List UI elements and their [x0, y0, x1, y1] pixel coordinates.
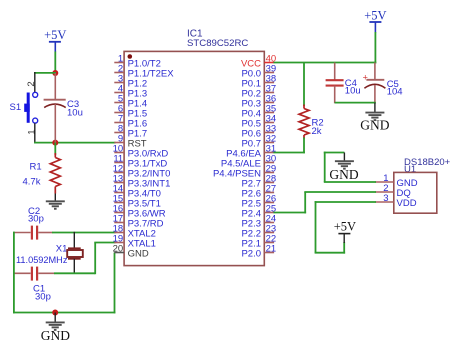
svg-text:GND: GND — [329, 167, 358, 182]
IC1 pin 3 (P1.2) — [114, 73, 147, 89]
IC1 pin 27 (P2.6) — [241, 183, 276, 199]
IC1 pin 17 (P3.7/RD) — [113, 213, 164, 229]
IC1 pin 31 (P4.6/EA) — [226, 143, 276, 159]
IC1 pin 8 (P1.7) — [114, 123, 147, 139]
wire GND pin 20 drop — [114, 253, 116, 314]
IC1 pin 4 (P1.3) — [114, 83, 147, 99]
IC1 pin 21 (P2.0) — [241, 243, 276, 259]
wire +5V drop to VCC rail — [374, 32, 376, 63]
svg-text:4.7k: 4.7k — [23, 177, 41, 188]
capacitor C4 — [326, 63, 344, 104]
IC1 pin 33 (P0.6) — [241, 123, 276, 139]
IC1 pin 23 (P2.2) — [241, 223, 276, 239]
IC1 pin 25 (P2.4) — [241, 203, 276, 219]
IC1 pin 2 (P1.1/T2EX) — [114, 63, 174, 79]
capacitor C1 — [14, 267, 55, 281]
IC1 pin 40 (VCC) — [241, 53, 276, 69]
svg-text:10u: 10u — [67, 108, 83, 119]
IC1 pin 38 (P0.1) — [241, 73, 276, 89]
IC1 pin 19 (XTAL1) — [113, 233, 156, 249]
wire riser to XTAL1 pin 19 — [94, 243, 115, 275]
IC1 pin 1 (P1.0/T2) — [114, 53, 161, 69]
IC1 pin 35 (P0.4) — [241, 103, 276, 119]
svg-text:30p: 30p — [28, 214, 44, 225]
IC1 pin 15 (P3.5/T1) — [113, 193, 161, 209]
IC1 pin 9 (RST) — [114, 133, 146, 149]
svg-text:30p: 30p — [35, 291, 51, 302]
IC1 pin 6 (P1.5) — [114, 103, 147, 119]
ground GND (near U1) — [329, 153, 358, 183]
switch S1 — [24, 92, 38, 123]
IC1 pin 34 (P0.5) — [241, 113, 276, 129]
IC1 pin 16 (P3.6/WR) — [113, 203, 166, 219]
IC1 pin 5 (P1.4) — [114, 93, 147, 109]
U1 pin 2 (DQ) — [375, 183, 410, 199]
IC1 pin 28 (P2.7) — [241, 173, 276, 189]
svg-text:+5V: +5V — [334, 219, 356, 233]
crystal X1 — [67, 232, 83, 274]
svg-text:1: 1 — [26, 130, 37, 135]
svg-text:R1: R1 — [30, 162, 42, 173]
node A junction dot — [52, 70, 58, 76]
svg-text:21: 21 — [266, 243, 277, 254]
IC1 pin 30 (P4.5/ALE) — [221, 153, 276, 169]
U1 pin 1 (GND) — [375, 173, 417, 189]
IC1 pin 36 (P0.3) — [241, 93, 276, 109]
svg-text:2k: 2k — [312, 126, 322, 137]
wire C2 to XTAL2 pin 18 — [52, 232, 116, 234]
IC1 pin 13 (P3.3/INT1) — [113, 173, 171, 189]
IC1 pin 7 (P1.6) — [114, 113, 147, 129]
IC1 pin 11 (P3.1/TxD) — [113, 153, 167, 169]
IC1 pin 22 (P2.1) — [241, 233, 276, 249]
wire S1 pin1 drop — [34, 123, 36, 143]
IC1 pin 29 (P4.4/PSEN) — [213, 163, 276, 179]
svg-text:GND: GND — [128, 248, 149, 259]
IC1 pin 32 (P0.7) — [241, 133, 276, 149]
wire VCC rail pin 40 — [274, 62, 377, 64]
wire node A to S1 pin 2 — [34, 72, 56, 74]
capacitor C5 — [363, 63, 386, 104]
wire bottom ground rail — [13, 312, 115, 314]
svg-text:+5V: +5V — [44, 28, 66, 42]
svg-text:S1: S1 — [10, 102, 22, 113]
power +5V (near U1) — [334, 219, 356, 243]
op-amp U0 IC1 body — [124, 51, 264, 265]
svg-text:P2.0: P2.0 — [241, 248, 261, 259]
ground GND (bottom) — [41, 313, 70, 343]
wire C1 to XTAL1 riser — [54, 272, 95, 274]
wire +5V stem to node A — [54, 52, 56, 74]
IC1 pin 20 (GND) — [113, 243, 149, 259]
svg-text:104: 104 — [387, 87, 403, 98]
svg-text:2: 2 — [26, 81, 37, 86]
IC1 pin 37 (P0.2) — [241, 83, 276, 99]
svg-text:11.0592MHz: 11.0592MHz — [16, 255, 68, 265]
sensor U1 body — [394, 172, 437, 213]
svg-text:STC89C52RC: STC89C52RC — [187, 38, 248, 49]
wire left rail C2-C1-GND — [13, 232, 15, 314]
wire U1 GND pin 1 — [324, 152, 376, 182]
svg-text:3: 3 — [383, 193, 388, 204]
svg-text:+5V: +5V — [364, 9, 386, 23]
node B junction dot — [52, 140, 58, 146]
IC1 pin 39 (P0.0) — [241, 63, 276, 79]
resistor R1 — [50, 143, 60, 194]
capacitor C3 — [44, 73, 66, 143]
capacitor C2 — [14, 226, 53, 240]
wire C4 bottom to C5 bottom — [335, 102, 376, 104]
power +5V (left) — [44, 28, 66, 52]
wire R2 to EA pin 31 — [274, 152, 305, 154]
ground below R1 — [46, 194, 65, 209]
svg-text:GND: GND — [360, 118, 389, 133]
ground GND (below C5) — [360, 103, 389, 133]
svg-text:20: 20 — [113, 243, 124, 254]
IC1 pin 10 (P3.0/RxD) — [113, 143, 169, 159]
IC1 pin 12 (P3.2/INT0) — [113, 163, 171, 179]
IC1 pin 24 (P2.3) — [241, 213, 276, 229]
wire DQ pin 2 to P2.4 pin 25 — [274, 192, 377, 213]
IC1 pin 18 (XTAL2) — [113, 223, 156, 239]
IC1 pin 14 (P3.4/T0) — [113, 183, 161, 199]
node C junction dot — [52, 310, 58, 316]
IC1 pin 26 (P2.5) — [241, 193, 276, 209]
svg-text:VDD: VDD — [397, 198, 417, 209]
svg-text:GND: GND — [41, 328, 70, 343]
svg-text:10u: 10u — [345, 86, 361, 97]
resistor R2 — [299, 63, 309, 154]
U1 pin 3 (VDD) — [375, 193, 416, 209]
wire VDD pin 3 to +5V — [315, 201, 376, 254]
wire node B to RST pin 9 — [34, 142, 115, 144]
wire S1 pin2 riser — [34, 72, 36, 93]
svg-text:X1: X1 — [56, 243, 68, 254]
svg-text:+: + — [363, 72, 368, 82]
power +5V (top right) — [364, 9, 386, 33]
